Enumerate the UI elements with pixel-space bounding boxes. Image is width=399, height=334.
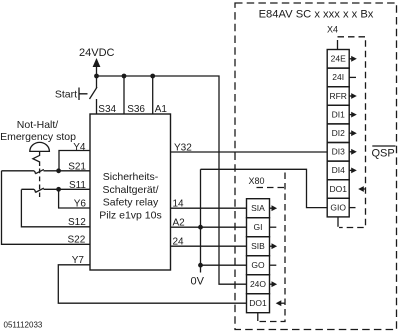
svg-text:A1: A1 [155,104,168,115]
svg-text:S21: S21 [68,161,86,172]
svg-text:S11: S11 [69,180,86,191]
svg-text:24: 24 [173,237,185,248]
svg-text:S34: S34 [98,104,116,115]
svg-text:S12: S12 [68,217,86,228]
svg-text:Y4: Y4 [73,142,86,153]
svg-text:DO1: DO1 [329,184,347,194]
svg-text:E84AV SC x xxx x x Bx: E84AV SC x xxx x x Bx [259,9,374,21]
svg-text:24O: 24O [250,279,266,289]
svg-text:14: 14 [173,198,185,209]
svg-text:0V: 0V [191,276,205,288]
svg-text:GI: GI [254,222,263,232]
svg-text:DO1: DO1 [249,298,267,308]
svg-text:GO: GO [251,260,265,270]
svg-text:SIA: SIA [251,203,265,213]
svg-text:24VDC: 24VDC [79,47,115,59]
svg-text:A2: A2 [173,217,186,228]
svg-text:Start: Start [55,89,77,101]
svg-text:Sicherheits-: Sicherheits- [103,171,159,183]
svg-text:S22: S22 [68,235,86,246]
svg-text:DI3: DI3 [332,147,346,157]
svg-text:QSP: QSP [372,148,395,160]
svg-text:Y32: Y32 [174,142,192,153]
svg-text:S36: S36 [127,104,145,115]
svg-text:X4: X4 [327,25,338,35]
svg-text:Not-Halt/: Not-Halt/ [17,119,59,131]
svg-text:GIO: GIO [330,202,346,212]
svg-text:24E: 24E [331,54,346,64]
svg-text:DI2: DI2 [332,128,346,138]
svg-text:Schaltgerät/: Schaltgerät/ [102,184,158,196]
svg-text:DI4: DI4 [332,165,346,175]
svg-text:RFR: RFR [329,91,346,101]
svg-text:X80: X80 [249,176,265,186]
svg-text:SIB: SIB [251,241,265,251]
svg-text:Y6: Y6 [74,198,87,209]
svg-text:Emergency stop: Emergency stop [0,131,76,143]
svg-text:Y7: Y7 [72,255,85,266]
svg-text:24I: 24I [332,72,344,82]
svg-text:DI1: DI1 [332,109,346,119]
svg-text:051112033: 051112033 [4,321,43,330]
svg-text:Safety relay: Safety relay [103,197,159,209]
svg-text:Pilz e1vp 10s: Pilz e1vp 10s [99,209,161,221]
